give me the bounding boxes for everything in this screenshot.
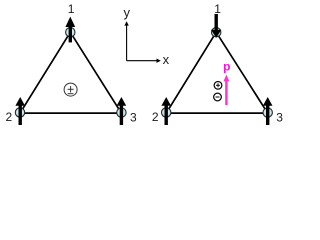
svg-text:3: 3 xyxy=(276,110,283,124)
svg-text:y: y xyxy=(124,5,131,20)
svg-text:1: 1 xyxy=(214,2,221,16)
spin arrow up at L3 xyxy=(117,97,127,125)
site circle R1 (top) xyxy=(212,28,221,37)
site circle L2 (bottom-left) xyxy=(15,108,24,117)
site circle L1 (top) xyxy=(66,28,75,37)
svg-text:p: p xyxy=(223,60,230,74)
svg-text:x: x xyxy=(163,52,170,67)
spin arrow up at L1 xyxy=(65,17,75,43)
right triangle edges xyxy=(166,32,268,113)
plus-minus circle (left triangle center) xyxy=(64,83,77,96)
x axis xyxy=(127,59,161,63)
y axis xyxy=(124,21,128,60)
site circle R2 (bottom-left) xyxy=(162,108,171,117)
left triangle edges xyxy=(20,32,121,113)
spin arrow up at L2 xyxy=(15,97,25,125)
spin arrow down at R1 xyxy=(211,14,221,38)
polarization arrow P xyxy=(224,75,230,106)
svg-text:1: 1 xyxy=(68,2,75,16)
svg-text:2: 2 xyxy=(152,110,159,124)
charge plus circle xyxy=(214,81,222,89)
spin arrow up at R3 xyxy=(263,97,273,125)
spin arrow up at R2 xyxy=(161,97,171,125)
site circle R3 (bottom-right) xyxy=(263,108,272,117)
svg-text:3: 3 xyxy=(130,110,137,124)
site circle L3 (bottom-right) xyxy=(117,108,126,117)
charge minus circle xyxy=(214,93,222,101)
svg-text:2: 2 xyxy=(6,110,13,124)
